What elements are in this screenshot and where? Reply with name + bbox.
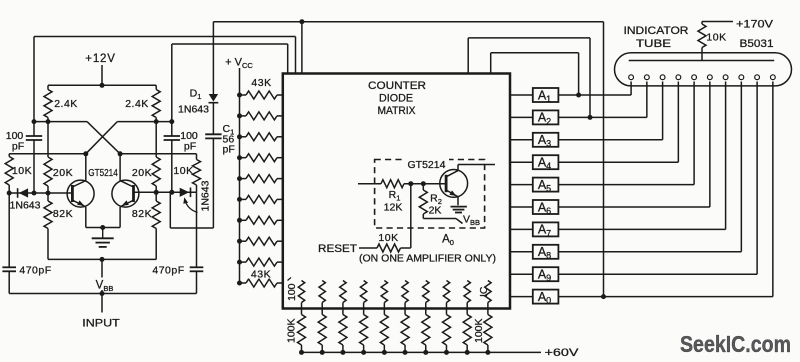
svg-text:12K: 12K [384,202,403,214]
wire: VBB stub [101,259,103,293]
svg-text:1N643: 1N643 [178,104,209,116]
svg-text:+60V: +60V [545,347,580,359]
wire: top rail from D1 column to A0 drop [213,21,603,23]
resistor 43K ladder row 1 [240,94,247,96]
wire: +60V rail [302,351,542,353]
resistor (matrix output 3) [340,281,346,303]
resistor (matrix output 7) [423,281,429,303]
wire: left base rail [9,192,72,194]
wire: matrix to A8 box [510,251,533,253]
wire: +12V stub [101,65,103,85]
wire: A5 to indicator tube pin 5 [558,184,694,186]
tube anode line [629,60,775,62]
node: emitter junction [100,225,105,230]
wire: vertical from top rail into counter matrix [301,22,303,75]
svg-text:COUNTER: COUNTER [368,80,426,92]
svg-text:pF: pF [184,141,196,153]
wire: +12V rail [48,84,156,86]
svg-text:20K: 20K [132,167,152,179]
node: right collector stub [118,151,123,156]
wire: A7 to indicator tube pin 7 [558,228,725,230]
resistor (matrix output 1) [298,281,304,303]
resistor 43K ladder row 7 [240,219,247,221]
resistor 43K ladder row 9 [240,261,247,263]
resistor (matrix output 9) [464,281,470,303]
wire: flip-flop output rail (left) to counter matrix [34,36,296,38]
resistor 100K (pulldown 4) [363,309,365,315]
wire: matrix to A0 box [510,296,533,298]
wire: top rail down to A0 [603,22,605,297]
wire: A9 to indicator tube pin 9 [558,273,757,275]
svg-text:RESET: RESET [318,243,357,255]
resistor 2.4K (right) [152,90,160,118]
ground [102,228,104,238]
svg-text:MATRIX: MATRIX [378,105,417,117]
node A4 (box) [533,155,559,169]
resistor (matrix output 5) [381,281,387,303]
wire: cross-coupling diagonal (right rail to left stub) [86,122,118,154]
resistor (matrix output 4) [360,281,366,303]
node: R2 top [421,181,426,186]
wire: A0 to indicator tube pin 10 [558,296,772,298]
wire: matrix to A7 box [510,228,533,230]
svg-text:2.4K: 2.4K [54,98,78,110]
wire: right stub line [120,153,196,155]
node A3 (box) [533,133,559,147]
svg-text:100: 100 [286,283,298,301]
resistor 100K (pulldown 7) [425,309,427,315]
counter diode matrix box [283,74,510,309]
resistor 43K ladder row 5 [240,178,247,180]
wire: nested route box-top to A2 [467,38,469,75]
svg-text:IC: IC [478,286,490,297]
tube pin 4 [676,75,681,80]
svg-text:+12V: +12V [85,53,115,65]
svg-text:100K: 100K [473,318,485,343]
node: VBB junction [100,291,105,296]
svg-text:pF: pF [12,141,24,153]
node A5 (box) [533,178,559,192]
wire: A3 to indicator tube pin 3 [558,139,662,141]
node: top rail junction [299,19,304,24]
transistor U1 GT5214 (amplifier) [440,170,468,198]
node A7 (box) [533,222,559,236]
resistor 43K ladder row 3 [240,136,247,138]
wire: reset to base node [410,184,412,248]
capacitor 100pF (right) [164,135,180,137]
resistor 100K (pulldown 10) [487,309,489,315]
wire: right base rail [134,191,197,193]
resistor 100K (pulldown 2) [321,309,323,315]
node A2 (box) [533,110,559,124]
resistor 43K ladder row 6 [240,198,247,200]
svg-text:pF: pF [223,144,235,156]
wire: left stub line [9,153,86,155]
resistor (matrix output 6) [402,281,408,303]
resistor 82K (right) [152,201,160,229]
svg-text:TUBE: TUBE [636,38,671,50]
wire: matrix to A6 box [510,206,533,208]
transistor Q1 GT5214 (left) [67,180,94,207]
resistor 20K (right) [155,122,157,157]
wire: A1 to indicator tube pin 1 [558,94,631,96]
svg-text:INPUT: INPUT [82,318,120,330]
resistor 2.4K (left) [44,90,52,118]
resistor R1 12K [381,180,404,188]
svg-text:43K: 43K [251,269,271,281]
node: +12V rail junction [100,83,105,88]
svg-text:100K: 100K [286,318,298,343]
resistor 43K ladder row 2 [240,115,247,117]
node A9 (box) [533,267,559,281]
resistor 10K (anode) [701,53,703,61]
resistor 43K ladder row 8 [240,240,247,242]
capacitor 470pF (right) [196,192,198,267]
resistor 100K (pulldown 8) [445,309,447,315]
wire: matrix to A3 box [510,139,533,141]
resistor (matrix output 10) [485,281,491,303]
resistor 43K ladder row 10 [240,282,247,284]
tube pin 10 [770,75,775,80]
svg-text:(ON ONE AMPLIFIER ONLY): (ON ONE AMPLIFIER ONLY) [359,253,496,265]
wire: amplifier collector output [458,164,495,166]
node A1 (box) [533,88,559,102]
wire: +170V lead [702,21,733,23]
svg-text:10K: 10K [173,165,193,177]
svg-text:1N643: 1N643 [200,180,212,211]
tube pin 3 [660,75,665,80]
wire: left output column [33,37,35,122]
annotation arrow to right diode [185,200,198,213]
svg-text:2K: 2K [429,205,442,217]
dashed box (one amplifier) [375,160,485,229]
resistor R2 2K [419,190,427,214]
node [32,119,37,124]
tube pin 5 [692,75,697,80]
svg-text:DIODE: DIODE [379,93,413,105]
resistor (matrix output 8) [443,281,449,303]
svg-text:10K: 10K [378,232,398,244]
wire: VBB rail [9,293,196,295]
wire: matrix to A9 box [510,273,533,275]
node: A2 junction [588,115,593,120]
diode 1N643 (left) [19,188,28,197]
label 43K (bottom) [247,269,275,279]
wire: A8 to indicator tube pin 8 [558,251,741,253]
indicator tube B5031 [615,53,792,86]
node [32,191,37,196]
resistor 100K (pulldown 6) [404,309,406,315]
wire: right output column [171,44,173,122]
wire: amplifier input [358,183,381,185]
svg-text:82K: 82K [53,208,73,220]
resistor 43K ladder row 4 [240,157,247,159]
tube pin 6 [707,75,712,80]
svg-text:1N643: 1N643 [10,200,41,212]
wire: matrix to A4 box [510,161,533,163]
wire: INPUT stub [101,294,103,313]
resistor 100K (pulldown 1) [301,309,303,315]
resistor 10K (reset) [377,244,401,252]
svg-text:82K: 82K [132,208,152,220]
wire: A6 to indicator tube pin 6 [558,206,709,208]
wire: flip-flop output rail (right) to counter matrix [172,43,288,45]
label GT5214 (amplifier) [404,159,449,170]
svg-text:GT5214: GT5214 [408,159,446,171]
wire: A4 to indicator tube pin 4 [558,161,678,163]
resistor 100K (pulldown 9) [466,309,468,315]
tube pin 7 [723,75,728,80]
resistor (matrix output 2) [319,281,325,303]
svg-text:470pF: 470pF [152,265,184,277]
node: left collector stub [83,151,88,156]
wire: base lead [423,183,446,185]
node [169,190,174,195]
wire: A2 to indicator tube pin 2 [558,116,646,118]
node [7,191,12,196]
wire: VCC ladder rail [239,68,241,283]
wire: C1 to right base loop [170,227,213,229]
svg-text:470pF: 470pF [19,265,51,277]
capacitor 470pF (left) [8,193,10,267]
node [154,119,159,124]
resistor 100K (pulldown 5) [383,309,385,315]
wire: emitter rail [86,227,120,229]
svg-text:B5031: B5031 [740,38,774,50]
resistor 82K (left) [44,201,52,229]
ground (amplifier emitter) [451,206,467,208]
resistor 20K (left) [47,122,49,157]
wire: nested route box-top to A1 [490,53,492,75]
tube pin 1 [629,75,634,80]
resistor 10K (left) [8,154,10,157]
diode D1 1N643 [212,22,214,94]
node [46,119,51,124]
node [169,119,174,124]
wire: cross-coupling diagonal (left rail to right stub) [87,122,120,154]
wire: R2 to VBB [423,218,456,220]
tube pin 9 [755,75,760,80]
tube pin 2 [644,75,649,80]
node: A0 junction [601,294,606,299]
capacitor C1 56pF [205,133,221,135]
resistor 100K (pulldown 3) [342,309,344,315]
wire: matrix to A5 box [510,184,533,186]
svg-text:INDICATOR: INDICATOR [624,25,689,37]
wire: matrix to A2 box [510,116,533,118]
svg-text:2.4K: 2.4K [125,98,149,110]
node A8 (box) [533,245,559,259]
transistor Q2 GT5214 (right) [112,180,139,207]
node: A1 junction [576,93,581,98]
node [100,257,105,262]
svg-text:10K: 10K [706,32,726,44]
wire: right collector rail [117,121,172,123]
label VBB [94,278,115,291]
svg-text:43K: 43K [251,77,271,89]
diode 1N643 (right) [180,188,190,197]
node A0 (box) [533,290,559,304]
node [154,190,159,195]
resistor 10K (right) [196,154,198,160]
node: R1/base/reset junction [408,181,413,186]
wire: left collector rail [34,121,87,123]
wire: matrix to A1 box [510,94,533,96]
node A6 (box) [533,200,559,214]
wire: 82K bottom rail [48,258,156,260]
capacitor 100pF (left) [26,135,42,137]
svg-text:10K: 10K [12,165,32,177]
svg-text:SeekIC.com: SeekIC.com [680,331,791,357]
svg-text:20K: 20K [53,167,73,179]
svg-text:GT5214: GT5214 [88,167,118,179]
node [46,191,51,196]
svg-text:+170V: +170V [736,19,774,31]
tube pin 8 [739,75,744,80]
